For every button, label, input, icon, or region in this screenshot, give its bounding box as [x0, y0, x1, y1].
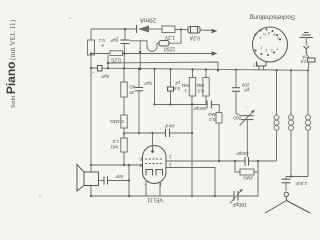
- node after 8uF: [107, 67, 109, 69]
- tube top grid cap lead: [151, 133, 154, 153]
- node tube stem joint: [151, 132, 153, 134]
- svg-text:1: 1: [184, 89, 187, 94]
- node chain: [123, 132, 125, 134]
- node W4 ends: [90, 164, 92, 166]
- svg-text:2μF: 2μF: [144, 81, 152, 86]
- svg-text:1: 1: [271, 49, 273, 53]
- svg-text:μF: μF: [174, 81, 180, 86]
- wire mains line 2: [91, 51, 218, 55]
- coil L2: [289, 69, 294, 176]
- wire coil bottoms: [286, 176, 308, 178]
- resistor 30k chain top: [121, 68, 127, 97]
- wire bottom bus W5: [91, 195, 234, 197]
- svg-text:0,1MΩ: 0,1MΩ: [110, 119, 124, 124]
- capacitor 0,5uF: [168, 68, 174, 106]
- svg-text:kΩ: kΩ: [129, 85, 135, 90]
- svg-text:0,2A: 0,2A: [189, 35, 200, 41]
- svg-text:VEL11: VEL11: [147, 197, 163, 203]
- wire 5uF down to bus: [123, 44, 125, 69]
- jack cup L7: [257, 62, 267, 71]
- svg-text:1,2V: 1,2V: [164, 34, 175, 40]
- tube internal grids: [145, 159, 164, 164]
- wire y63 parallel feed: [108, 62, 218, 70]
- svg-text:MΩ: MΩ: [208, 112, 216, 117]
- main bus W3: [91, 66, 98, 69]
- wire z2 to cathode bus: [166, 168, 215, 197]
- capacitor 10nF: [166, 129, 193, 137]
- svg-text:5: 5: [277, 36, 279, 40]
- tube VEL11 envelope: [143, 146, 167, 184]
- svg-text:6: 6: [273, 33, 275, 37]
- resistor 0,25: [110, 51, 123, 56]
- svg-text:7: 7: [276, 47, 278, 51]
- node W2 left: [90, 52, 92, 54]
- tube pin labels: [139, 155, 172, 189]
- resistor R1 left: [88, 29, 95, 165]
- wire barretter branch: [130, 41, 160, 52]
- resistor 2M: [235, 161, 258, 175]
- svg-text:2250: 2250: [164, 46, 175, 52]
- resistor R heater 1: [162, 26, 175, 33]
- node RC right: [257, 160, 259, 162]
- wire 0,25 tap down: [107, 55, 109, 69]
- plug hook: [304, 46, 310, 54]
- svg-text:2,5nF: 2,5nF: [295, 181, 307, 186]
- node x129: [128, 164, 130, 166]
- svg-text:MΩ: MΩ: [110, 145, 118, 150]
- title Seibt Piano (mit VEL 11): [4, 19, 18, 108]
- svg-text:8μF: 8μF: [101, 74, 109, 79]
- socket pin labels: [259, 31, 279, 53]
- resistor 1M: [189, 68, 195, 197]
- svg-text:0,25: 0,25: [111, 57, 121, 63]
- node y63 bus joint: [217, 69, 219, 71]
- node bus x139: [138, 68, 140, 70]
- svg-text:Sockelschaltung: Sockelschaltung: [249, 14, 295, 21]
- resistor 0,3M: [203, 68, 209, 104]
- barretter capsule 2250: [159, 41, 169, 47]
- antenna symbol: [265, 197, 310, 213]
- capacitor 5uF electrolytic: [116, 29, 130, 44]
- resistor 0,2M right rail: [216, 105, 222, 162]
- paper specks: [39, 17, 247, 197]
- node meander-bus: [139, 68, 141, 70]
- capacitor 500pF: [207, 101, 220, 109]
- svg-text:a: a: [101, 44, 104, 49]
- resistor 0,1M chain mid: [121, 97, 127, 128]
- svg-text:0,3: 0,3: [197, 89, 204, 94]
- svg-text:5nF: 5nF: [115, 174, 123, 179]
- antenna curl: [284, 192, 288, 196]
- node z1-rail: [218, 160, 220, 162]
- svg-text:4: 4: [259, 36, 261, 40]
- svg-text:200: 200: [241, 83, 249, 88]
- svg-text:500pF: 500pF: [193, 106, 206, 111]
- socket circle: [253, 27, 288, 62]
- svg-text:pF: pF: [244, 88, 250, 93]
- wire: [149, 28, 162, 30]
- node y104 x154: [153, 103, 155, 105]
- node: [124, 28, 126, 30]
- choke 0,2A: [188, 27, 200, 34]
- node bus x124: [123, 67, 125, 69]
- svg-text:0,5: 0,5: [173, 86, 180, 91]
- svg-text:2,5: 2,5: [300, 59, 306, 64]
- wire mains terminal 1: [200, 29, 218, 33]
- wire top heater line: [91, 28, 137, 30]
- capacitor 8uF electrolytic in bus: [92, 66, 308, 76]
- speaker: [77, 165, 99, 197]
- wire grid W4: [91, 164, 143, 166]
- capacitor 200pF chain: [232, 69, 240, 114]
- wire anode feed: [154, 69, 156, 105]
- wire grid y133: [124, 132, 166, 134]
- svg-text:0,2: 0,2: [209, 117, 216, 122]
- node W2 crossing: [123, 52, 125, 54]
- capacitor 2,5nF blocking: [306, 54, 315, 70]
- node RC left: [234, 160, 236, 162]
- capacitor 100pF: [245, 157, 277, 166]
- svg-text:2: 2: [260, 46, 262, 50]
- resistor 1,5M chain bottom: [121, 128, 127, 165]
- tube cathodes: [146, 170, 163, 176]
- svg-text:500: 500: [233, 116, 241, 121]
- wire rail x129: [128, 165, 130, 196]
- svg-text:2MΩ: 2MΩ: [243, 176, 253, 181]
- node W5 left: [90, 195, 92, 197]
- socket pins: [255, 29, 282, 57]
- wire right tank rail: [239, 161, 259, 196]
- svg-text:20mA: 20mA: [139, 17, 156, 24]
- node y133 x139: [138, 132, 140, 134]
- node bus x154: [153, 68, 155, 70]
- svg-text:0,1: 0,1: [98, 38, 105, 43]
- capacitor 2uF: [135, 69, 143, 134]
- trimmer 500: [236, 110, 255, 157]
- node z2 bottom: [214, 195, 216, 197]
- svg-text:L7: L7: [252, 63, 258, 68]
- svg-text:+: +: [92, 70, 95, 75]
- svg-text:5μF: 5μF: [110, 38, 118, 43]
- svg-text:1,5: 1,5: [112, 139, 119, 144]
- capacitor 2,5nF: [282, 177, 291, 192]
- diode 20mA: [137, 25, 150, 33]
- wire: [175, 29, 188, 31]
- coil L3: [306, 69, 311, 176]
- wire anode z1: [166, 160, 245, 162]
- node junction: [180, 28, 182, 30]
- ground symbol rotated: [300, 33, 314, 47]
- svg-text:10nF: 10nF: [164, 124, 175, 129]
- node meander-W2: [139, 51, 141, 53]
- svg-text:MΩ: MΩ: [181, 83, 189, 88]
- wire to junction: [169, 30, 181, 44]
- capacitor 5nF speaker: [99, 177, 130, 185]
- svg-text:H: H: [263, 32, 266, 36]
- svg-text:3: 3: [265, 48, 267, 52]
- svg-text:160pF: 160pF: [232, 201, 247, 207]
- svg-text:MΩ: MΩ: [196, 83, 204, 88]
- node y63 left: [107, 62, 109, 64]
- svg-text:30: 30: [129, 90, 135, 95]
- coil L1: [274, 69, 279, 161]
- variable capacitor 160pF: [230, 189, 243, 204]
- tube bottom pins: [146, 181, 160, 196]
- wire y104: [155, 104, 208, 106]
- wire meander leg to bus: [139, 41, 141, 69]
- node bus-rail: [90, 67, 92, 69]
